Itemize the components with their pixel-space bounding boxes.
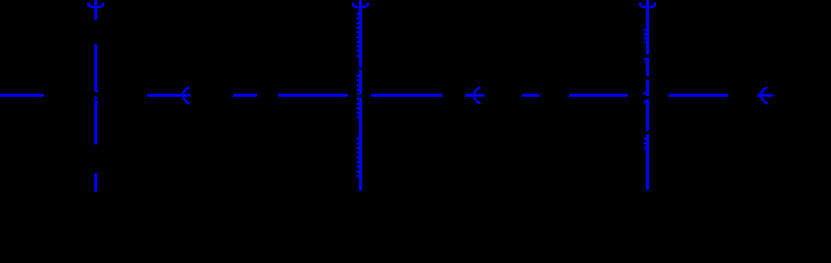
curved arrowhead (right) on H10 (761, 88, 767, 104)
dipole element 1 upper half (94, 44, 97, 92)
arrow I1 shaft (current arrow up, element 1) (94, 0, 97, 20)
wire: segment H10 with wave-direction arrow (757, 88, 773, 104)
element 2 group (353, 0, 368, 191)
dipole element 3 dash c (646, 80, 649, 97)
wire: segment H6 with wave-direction arrow (465, 88, 485, 104)
dipole element 2 segment b (359, 70, 362, 95)
arrow I3 shaft (current arrow up, element 3) (646, 0, 649, 12)
dotted overlay teeth (element 2 zone 2a) (357, 75, 359, 95)
dotted overlay teeth (element 2 zone 3) (357, 138, 359, 180)
dipole element 3 dash e (646, 134, 649, 190)
dipole element 3 dash b (646, 58, 649, 77)
feed speck (element 3) (644, 101, 646, 104)
wire: segment H2 with wave-direction arrow (147, 88, 191, 104)
curved arrowhead (right) on H2 (183, 88, 189, 104)
dotted overlay teeth (element 2 zone 2b) (357, 98, 359, 118)
arrow I2 head barbs (353, 3, 361, 7)
tooth near feed (element 3) (643, 92, 646, 94)
wire: dash H3 (233, 94, 257, 97)
curved arrowhead (right) on H6 (474, 88, 480, 104)
wire: horizontal feed line segment H1 (0, 94, 44, 97)
teeth patch 2 (element 3) (644, 58, 647, 63)
dotted overlay teeth (element 2 zone 1) (357, 13, 359, 60)
arrow I3 head barbs (640, 3, 648, 7)
dashed continuation (element 1 bottom) (94, 173, 97, 192)
dipole element 2 segment c (359, 98, 362, 191)
arrow I2 shaft (current arrow up, element 2) (359, 0, 362, 12)
dipole element 2 segment a (359, 10, 362, 68)
wire: segment H9 (669, 94, 729, 97)
teeth patch 1 (element 3) (644, 29, 647, 43)
wire: segment H8 (569, 94, 628, 97)
dipole element 3 dash a (646, 10, 649, 55)
dipole element 3 dash d (646, 99, 649, 131)
dipole element 1 lower half (94, 100, 97, 145)
wire: segment H5 (371, 94, 443, 97)
element 1 group (88, 0, 103, 192)
feed-point mark lower (element 1) (96, 101, 98, 103)
feed-point mark upper (element 1) (96, 90, 98, 92)
wire: dash H7 (522, 94, 540, 97)
element 3 group (640, 0, 655, 190)
wire: segment H4 (278, 94, 348, 97)
arrow I1 head barbs (88, 3, 96, 7)
feed-point dash (element 1) (94, 97, 97, 100)
teeth patch 3 (element 3) (644, 138, 647, 151)
